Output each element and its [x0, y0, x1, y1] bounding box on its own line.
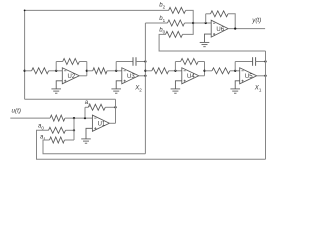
wire: U2 feedback top-left segment — [56, 61, 63, 63]
op-amp U3 — [122, 68, 139, 84]
wire: U5 cap left wire — [235, 61, 252, 63]
wire: U6 feedback top-right + drop to output — [228, 14, 235, 29]
wire: U1 output stub — [109, 122, 115, 124]
resistor R4 input resistor of U4 — [152, 68, 169, 74]
node: C2 junction on X1 vertical — [264, 60, 266, 62]
node: U3 output junction on X2 vertical — [144, 75, 146, 77]
wire: U3 output stub — [139, 75, 146, 77]
capacitor C1 feedback of U3 — [132, 57, 134, 66]
node: a-resistors junction on u row — [73, 117, 75, 119]
wire: U5 cap right wire — [256, 61, 266, 63]
wire: U6 feedback top-left segment — [206, 13, 211, 15]
wire: a2 feedback left riser — [84, 107, 86, 118]
node: a2 feedback tap on u row — [84, 117, 86, 119]
wire: X1 bottom feed to a0 (outer loop) — [37, 130, 266, 159]
resistor R3 input resistor of U3 — [93, 68, 107, 74]
wire: Ra0 to join vertical — [66, 129, 75, 131]
resistor Ru input resistor from u(t) — [50, 115, 65, 121]
resistor Ra1 — [50, 137, 65, 143]
wire: U4 output riser — [204, 62, 206, 76]
resistor Ra2 feedback resistor of U1 — [88, 104, 105, 110]
wire: b0 feed from X1 vertical up to b0 row — [159, 34, 265, 51]
op-amp U5 — [240, 68, 257, 84]
resistor R2 input resistor of U2 — [32, 68, 49, 74]
wire: row start to R2 — [25, 70, 32, 72]
node: top-left corner joint — [24, 10, 26, 12]
wire: U4 out to R5 — [205, 70, 213, 72]
resistor Rb0 — [166, 31, 183, 37]
wire: U1 output riser — [115, 99, 117, 123]
wire: U2 out to R3 — [87, 70, 93, 72]
wire: U4 feedback riser — [174, 62, 176, 71]
node: U4 output node — [203, 70, 205, 72]
ground: U2 ground — [51, 88, 61, 90]
resistor: U6 feedback resistor — [211, 11, 229, 17]
svg-text:U3: U3 — [127, 74, 135, 80]
wire: Rb0 corner up to b junction — [183, 23, 194, 34]
wire: U1 output horizontal return wire — [25, 98, 116, 100]
wire: a-join vertical to u row — [73, 118, 75, 140]
wire: Rb2 to corner down to b junction — [186, 10, 194, 23]
svg-text:u(t): u(t) — [12, 107, 21, 114]
resistor: U2 feedback resistor — [63, 59, 80, 65]
wire: X2 to R4 — [145, 70, 151, 72]
op-amp U4 — [182, 68, 199, 84]
ground: U1 ground — [81, 138, 91, 140]
wire: b junction to U6 inverting input — [193, 22, 211, 24]
wire: U4 plus-input stub to ground — [175, 81, 181, 89]
wire: U4 feedback top-right segment — [198, 61, 204, 63]
wire: U2 output stub — [79, 75, 87, 77]
node: b summing junction — [192, 22, 194, 24]
node: U2 summing junction — [55, 70, 57, 72]
node: U5 summing junction — [234, 70, 236, 72]
wire: U2 plus-input stub to ground — [56, 81, 62, 89]
node: U6 feedback tap — [205, 22, 207, 24]
node: U4 summing junction — [174, 70, 176, 72]
wire: U3 plus-input stub to ground — [116, 81, 122, 89]
wire: U5 output stub — [257, 75, 266, 77]
wire: U5 plus-input stub to ground — [235, 81, 240, 89]
node: junction left vertical / middle row — [23, 70, 25, 72]
node: U5 output junction on X1 vertical — [264, 75, 266, 77]
wire: Rb1 to b junction — [185, 22, 194, 24]
wire: U4 feedback top-left segment — [175, 61, 180, 63]
ground: U4 ground — [171, 88, 181, 90]
wire: U2 feedback top-right segment — [79, 61, 86, 63]
wire: X1 node vertical — [265, 51, 267, 159]
op-amp U6 — [211, 20, 228, 37]
node: U3 summing junction — [115, 70, 117, 72]
svg-text:U2: U2 — [68, 74, 76, 80]
resistor Rb1 — [168, 20, 185, 26]
wire: U3 cap riser — [115, 62, 117, 71]
wire: U6 plus-input stub to ground — [205, 34, 212, 42]
wire: top feedback wire from U1 output to b2 resistor — [25, 9, 169, 11]
svg-text:U5: U5 — [245, 74, 253, 80]
wire: Ra1 to join vertical — [65, 139, 75, 141]
wire: U6 feedback riser — [205, 14, 207, 23]
wire: U2 output riser — [86, 62, 88, 76]
ground: U5 ground — [230, 88, 240, 90]
node: a2 / output riser junction — [114, 106, 116, 108]
svg-text:y(t): y(t) — [251, 17, 261, 24]
resistor Ra0 — [49, 127, 66, 133]
wire: X2 top to Rb1 — [145, 22, 167, 24]
svg-text:U1: U1 — [98, 121, 106, 127]
wire: R3 to U3 inverting input — [107, 70, 122, 72]
resistor Rb2 — [169, 7, 186, 13]
wire: U2 feedback riser — [55, 62, 57, 71]
wire: a2 left segment — [85, 106, 88, 108]
wire: left vertical feedback wire — [24, 10, 26, 99]
node: U6 output feedback junction — [234, 27, 236, 29]
capacitor C2 feedback of U5 — [252, 57, 254, 66]
ground: U6 ground — [200, 41, 210, 43]
wire: R2 to U2 inverting input — [49, 70, 63, 72]
wire: a2 right segment — [105, 106, 115, 108]
node: C1 junction on X2 vertical — [144, 60, 146, 62]
ground: U3 ground — [111, 88, 121, 90]
op-amp U2 — [62, 68, 79, 84]
wire: U3 cap right wire — [136, 61, 145, 63]
wire: U3 cap left wire — [116, 61, 133, 63]
wire: u(t) input wire — [10, 117, 50, 119]
resistor: U4 feedback resistor — [181, 59, 199, 65]
resistor R5 input resistor of U5 — [212, 68, 230, 74]
wire: U4 output stub — [199, 75, 205, 77]
wire: R4 to U4 inverting input — [169, 70, 182, 72]
node: U2 output node — [86, 70, 88, 72]
wire: X2 node vertical — [144, 23, 146, 154]
wire: R5 to U5 inverting input — [230, 70, 240, 72]
node: a0 row junction — [73, 129, 75, 131]
svg-text:U6: U6 — [216, 27, 224, 33]
wire: U1 plus-input stub to ground — [86, 128, 92, 139]
node: X2 row junction — [144, 70, 146, 72]
wire: U5 cap riser — [234, 62, 236, 71]
wire: X2 bottom feed to a1 (inner loop) — [43, 140, 145, 154]
op-amp U1 — [92, 115, 109, 131]
wire: U6 output wire — [228, 28, 265, 30]
svg-text:U4: U4 — [187, 74, 195, 80]
wire: Ru to U1 inverting input — [65, 117, 93, 119]
